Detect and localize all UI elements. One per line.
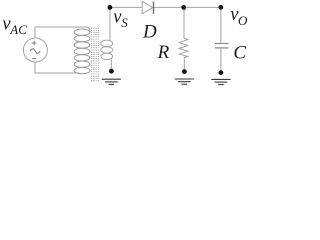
svg-text:R: R [157, 42, 170, 63]
svg-text:S: S [121, 15, 128, 30]
svg-text:C: C [233, 43, 246, 64]
svg-text:D: D [142, 21, 157, 42]
svg-text:AC: AC [9, 22, 27, 37]
svg-text:O: O [238, 13, 248, 28]
